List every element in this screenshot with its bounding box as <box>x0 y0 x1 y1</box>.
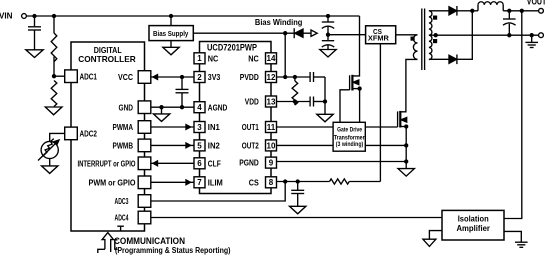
wire 3V3 to VCC with arrow <box>151 75 194 80</box>
wire PGND to Q2 source node <box>277 160 408 163</box>
wire Q2 source to ground <box>405 127 407 169</box>
inductor L1 <box>478 2 503 11</box>
svg-text:(Programming & Status Reportin: (Programming & Status Reporting) <box>115 246 231 255</box>
svg-text:VCC: VCC <box>118 72 133 82</box>
svg-text:IN2: IN2 <box>208 141 220 151</box>
bias supply box <box>149 26 193 41</box>
node primary polarity dot <box>411 37 414 40</box>
ground earth isolation amp right <box>515 242 528 247</box>
pin ADC3 <box>115 195 151 208</box>
svg-text:ILIM: ILIM <box>208 177 223 187</box>
pin 13 VDD <box>245 96 277 107</box>
transformer T1 secondary winding <box>429 11 432 60</box>
svg-text:PWM or GPIO: PWM or GPIO <box>89 177 136 187</box>
pin GND <box>119 101 151 114</box>
node Q2 source junction <box>405 125 408 128</box>
svg-text:9: 9 <box>269 159 274 168</box>
node VIN terminal <box>0 12 26 21</box>
capacitor C3 half-bridge upper <box>322 16 334 35</box>
svg-text:Amplifier: Amplifier <box>456 224 490 233</box>
svg-text:VIN: VIN <box>0 12 13 21</box>
svg-text:AGND: AGND <box>208 102 228 112</box>
svg-text:3: 3 <box>197 123 202 132</box>
node cap midpoint <box>327 33 330 36</box>
transformer T1 core <box>422 9 425 71</box>
label COMMUNICATION <box>114 236 185 246</box>
transistor Q1 clamp FET <box>350 75 360 91</box>
svg-text:Bias Supply: Bias Supply <box>153 29 189 38</box>
arrow COMMUNICATION bidirectional <box>98 233 118 253</box>
svg-text:NC: NC <box>208 53 219 63</box>
wire rail to bias supply <box>170 16 172 26</box>
wire PVDD net <box>277 76 311 79</box>
pin PWM or GPIO <box>89 176 151 189</box>
pin 8 CS <box>249 177 277 188</box>
svg-text:VOUT: VOUT <box>527 0 546 7</box>
wire PWM or GPIO to ILIM with arrow <box>151 180 194 185</box>
svg-text:CLF: CLF <box>208 158 221 168</box>
wire PWMA to IN1 with arrow <box>151 125 194 130</box>
wire center tap return rail <box>429 34 539 37</box>
ground below R2 <box>45 107 62 115</box>
wire isolation amp right ground <box>504 231 521 242</box>
pin 1 NC <box>194 53 218 64</box>
ground below C1 <box>26 50 43 58</box>
capacitor C2 vcc bypass <box>176 77 189 109</box>
svg-text:ADC4: ADC4 <box>115 213 129 223</box>
ground below thermistor <box>42 166 58 174</box>
wire CLF to INTERRUPT with arrow <box>151 161 194 166</box>
wire gate drive box to Q2 source node <box>365 144 407 147</box>
diode D2 output rectifier top <box>449 6 472 16</box>
svg-text:7: 7 <box>197 178 202 187</box>
resistor R2 divider bottom <box>51 81 57 108</box>
wire Q1 gate to gate drive box <box>340 90 350 123</box>
pin 7 ILIM <box>194 177 223 188</box>
wire VIN rail down to Q1 drain <box>353 16 360 76</box>
resistor R4 CS filter <box>330 179 350 184</box>
node return terminal <box>539 33 544 38</box>
capacitor C6 VDD bypass <box>310 97 325 107</box>
wire diode node down to PVDD <box>284 33 286 77</box>
resistor R3 PVDD to VDD <box>292 77 298 105</box>
junction on VIN rail at C1 <box>33 15 36 18</box>
wire PWMB to IN2 with arrow <box>151 143 194 148</box>
ground below cap stack <box>320 50 336 58</box>
transformer CS XFMR box <box>366 26 396 44</box>
wire isolation amp output sense to VOUT <box>504 11 522 219</box>
node VOUT terminal <box>527 0 546 13</box>
svg-text:CS: CS <box>249 177 259 187</box>
node A divider midpoint to ADC1 <box>53 75 65 78</box>
svg-text:ADC3: ADC3 <box>115 196 129 206</box>
ground below PVDD caps <box>317 114 333 122</box>
wire GND to AGND <box>151 106 194 109</box>
node Q1 source junction <box>358 87 361 90</box>
capacitor C5 PVDD bypass <box>310 72 325 82</box>
svg-text:6: 6 <box>197 159 202 168</box>
svg-text:Isolation: Isolation <box>458 214 489 223</box>
wire VDD net <box>277 100 311 103</box>
svg-text:ADC1: ADC1 <box>80 71 98 81</box>
svg-text:PWMA: PWMA <box>113 122 134 132</box>
wire CS XFMR sense down to CS net <box>379 44 381 182</box>
diode D3 output rectifier bottom <box>449 55 472 65</box>
pin PWMA <box>113 121 151 134</box>
label programming note <box>115 246 231 255</box>
wire rectifier junction to inductor <box>472 10 478 12</box>
capacitor C7 CS filter <box>291 182 304 207</box>
wire secondary bottom lead <box>429 58 449 60</box>
svg-text:13: 13 <box>267 97 276 106</box>
ground isolation amp left <box>423 239 436 246</box>
svg-text:2: 2 <box>197 73 202 82</box>
transformer T1 primary winding <box>413 35 417 60</box>
diode D1 bias winding <box>285 28 311 38</box>
ground on GND wire <box>153 107 169 121</box>
node communication port on controller bottom edge <box>117 226 124 231</box>
transformer T2 gate drive box <box>333 122 365 151</box>
ground below bias supply <box>163 47 179 55</box>
wire OUT1 to gate drive box <box>277 126 334 128</box>
svg-text:5: 5 <box>197 141 202 150</box>
svg-text:XFMR: XFMR <box>368 33 390 42</box>
svg-text:ADC2: ADC2 <box>80 129 98 139</box>
label Bias Winding <box>255 18 303 27</box>
pin 11 OUT1 <box>242 122 277 133</box>
junction VIN rail to bias supply <box>170 15 173 18</box>
ground earth on return rail <box>525 35 538 47</box>
ground below C7 <box>290 206 306 214</box>
pin 9 PGND <box>239 157 276 168</box>
wire CS XFMR to primary <box>396 34 418 36</box>
wire Q1 source to gate drive box <box>359 89 361 123</box>
pin PWMB <box>113 139 151 152</box>
capacitor C1 input bypass <box>28 16 41 50</box>
svg-text:10: 10 <box>267 141 276 150</box>
wire thermistor to ground <box>49 159 51 166</box>
resistor R1 divider top <box>51 16 57 76</box>
pin ADC1 <box>65 70 97 83</box>
node bias diode junction <box>284 32 287 35</box>
wire VIN rail <box>26 15 359 17</box>
svg-text:NC: NC <box>248 53 259 63</box>
op-amp U3 isolation amplifier box <box>442 210 504 240</box>
wire bias supply output to PVDD diode node <box>193 32 285 34</box>
svg-text:8: 8 <box>269 178 274 187</box>
wire inductor to VOUT <box>503 10 538 12</box>
svg-text:14: 14 <box>267 54 276 63</box>
wire secondary top lead <box>429 10 449 12</box>
wire ADC2 to thermistor <box>50 133 65 141</box>
wire isolation amp left ground <box>429 231 442 239</box>
svg-text:IN1: IN1 <box>208 122 220 132</box>
node secondary polarity dot lower <box>434 40 437 43</box>
capacitor C8 output <box>503 11 516 37</box>
node secondary polarity dot upper <box>434 16 437 19</box>
svg-text:PWMB: PWMB <box>113 141 134 151</box>
wire OUT2 to gate drive box <box>277 144 334 146</box>
svg-text:Bias Winding: Bias Winding <box>255 18 303 27</box>
svg-text:11: 11 <box>267 123 276 132</box>
wire CS net <box>277 180 330 183</box>
wire ADC4 to isolation amplifier <box>151 217 442 219</box>
svg-text:COMMUNICATION: COMMUNICATION <box>114 236 185 246</box>
pin 3 IN1 <box>194 122 220 133</box>
node VOUT sense junction <box>520 9 523 12</box>
ground below Q2 <box>398 169 414 177</box>
svg-text:PVDD: PVDD <box>240 72 259 82</box>
node output cap junction <box>508 9 511 12</box>
thermistor RT1 <box>38 139 59 161</box>
pin ADC2 <box>65 127 97 140</box>
wire gate drive box to Q2 gate <box>365 126 397 128</box>
svg-text:Gate Drive: Gate Drive <box>337 127 362 134</box>
pin 4 AGND <box>194 102 227 113</box>
digital controller U2 box <box>71 42 145 231</box>
capacitor C4 half-bridge lower <box>322 35 334 50</box>
wire rectifier bottom up to junction <box>471 11 473 60</box>
junction VIN rail at cap stack <box>327 15 330 18</box>
wire primary bottom to main FET drain <box>400 59 417 111</box>
svg-text:GND: GND <box>119 102 134 112</box>
transistor Q2 main switch <box>398 111 407 128</box>
svg-text:CONTROLLER: CONTROLLER <box>78 54 136 64</box>
pin 10 OUT2 <box>242 140 277 151</box>
wire CS resistor to CS XFMR <box>349 181 380 183</box>
node rectifier junction <box>471 9 474 12</box>
pin 5 IN2 <box>194 140 220 151</box>
op-amp U1 UCD7201PWP body <box>200 42 272 194</box>
svg-text:1: 1 <box>197 54 202 63</box>
svg-text:UCD7201PWP: UCD7201PWP <box>207 43 257 53</box>
svg-text:OUT2: OUT2 <box>242 141 259 151</box>
pin INTERRUPT or GPIO <box>78 157 151 170</box>
wire cap midpoint to CS XFMR <box>328 34 366 36</box>
pin 12 PVDD <box>240 72 277 83</box>
pin 6 CLF <box>194 158 221 169</box>
junction on VIN rail at R1 <box>53 15 56 18</box>
svg-text:VDD: VDD <box>245 97 259 107</box>
svg-text:3V3: 3V3 <box>208 72 221 82</box>
svg-text:(3 winding): (3 winding) <box>336 141 364 148</box>
svg-text:PGND: PGND <box>239 158 259 168</box>
svg-text:12: 12 <box>267 73 276 82</box>
pin VCC <box>118 71 151 84</box>
svg-text:OUT1: OUT1 <box>242 122 259 132</box>
pin ADC4 <box>115 211 151 224</box>
wire caps to ground <box>324 77 327 114</box>
wire ADC3 to CS node <box>151 182 285 202</box>
wire bias supply to ground <box>170 41 172 47</box>
arrow from bias winding <box>311 30 317 36</box>
svg-text:INTERRUPT or GPIO: INTERRUPT or GPIO <box>78 159 136 168</box>
svg-text:4: 4 <box>197 103 202 112</box>
pin 14 NC <box>248 53 276 64</box>
pin 2 3V3 <box>194 72 221 83</box>
